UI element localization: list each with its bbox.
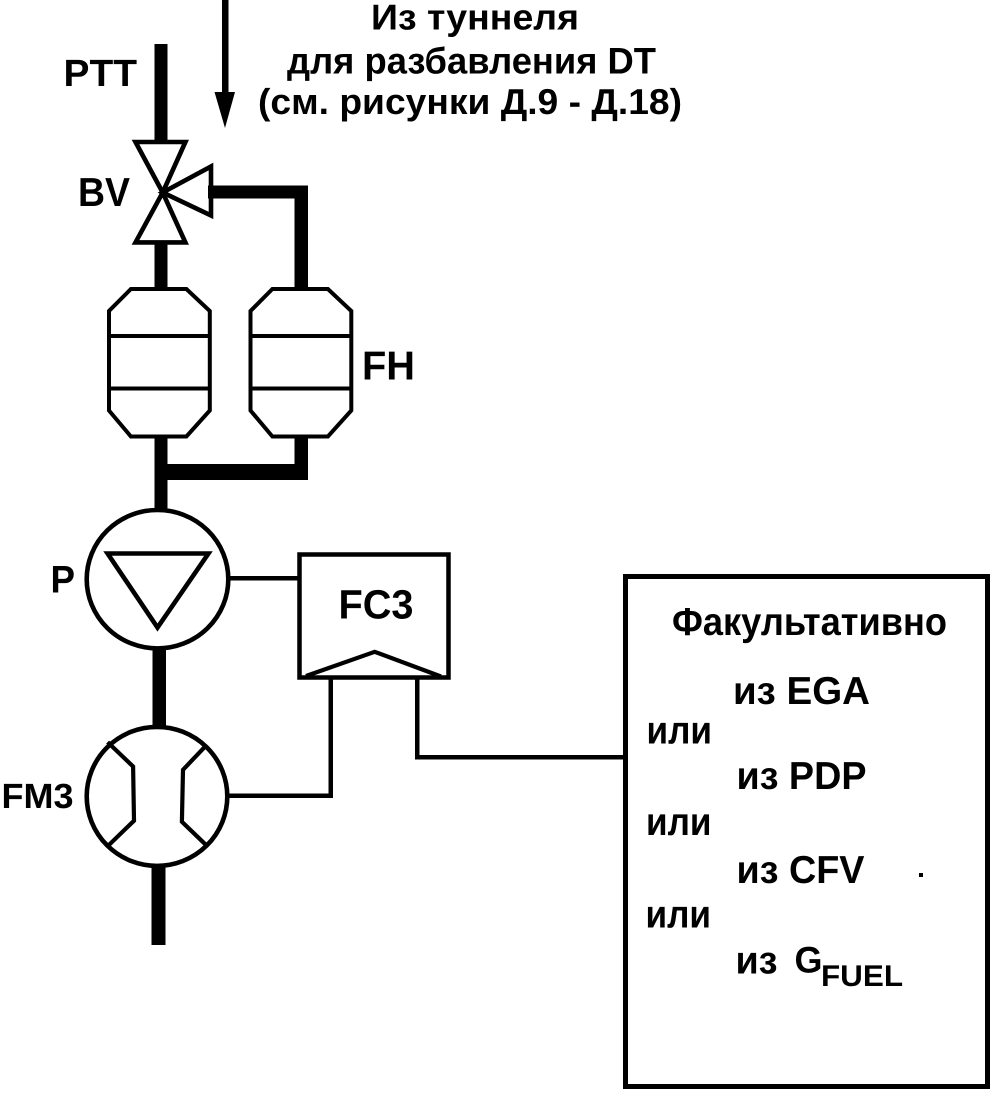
pipe PTT (into valve from top)	[155, 44, 168, 143]
svg-text:из CFV: из CFV	[737, 849, 865, 892]
valve BV (three-way)	[136, 142, 212, 242]
label из GFUEL	[736, 940, 904, 994]
svg-text:PTT: PTT	[64, 53, 138, 95]
inlet arrow from dilution tunnel DT	[215, 0, 236, 128]
svg-text:BV: BV	[78, 169, 130, 215]
svg-text:FUEL: FUEL	[821, 960, 903, 993]
line FC3 bottom-left (vertical)	[329, 679, 334, 798]
pump impeller triangle	[108, 554, 209, 628]
pump P	[87, 510, 229, 648]
FM3 venturi right	[182, 745, 207, 846]
svg-text:из PDP: из PDP	[737, 755, 867, 798]
pipe down to right filter	[295, 186, 309, 290]
filter housing right FH	[251, 289, 352, 437]
line horizontal to optional box	[415, 755, 625, 760]
pipe from valve right side	[208, 186, 308, 199]
pipe horizontal joining filters	[155, 464, 309, 480]
svg-text:G: G	[795, 940, 823, 981]
line FC3 bottom-right vertical to optional box	[415, 679, 420, 759]
line FM3 to FC3 (horizontal)	[229, 794, 333, 799]
speck in box	[919, 873, 923, 877]
FC3 controller box	[300, 555, 449, 678]
svg-text:для разбавления DT: для разбавления DT	[287, 41, 656, 82]
filter housing left	[109, 289, 210, 437]
pipe below valve	[155, 242, 168, 290]
pipe pump to FM3	[153, 649, 167, 726]
pipe below left filter to pump	[155, 436, 168, 510]
svg-text:из: из	[736, 940, 778, 983]
pipe below FM3 (outlet)	[152, 867, 166, 945]
svg-text:или: или	[647, 710, 713, 753]
svg-text:FC3: FC3	[339, 582, 414, 628]
svg-text:P: P	[51, 559, 76, 602]
flow meter FM3	[87, 727, 228, 866]
label: Из туннеля для разбавления DT (см. рисунки Д.9 - Д.18)	[258, 0, 682, 122]
optional sources box	[626, 577, 988, 1087]
svg-text:(см. рисунки Д.9 - Д.18): (см. рисунки Д.9 - Д.18)	[258, 81, 682, 122]
svg-text:FH: FH	[362, 343, 415, 389]
FM3 venturi left	[108, 742, 134, 846]
svg-text:или: или	[646, 894, 712, 937]
line pump to FC3	[228, 576, 301, 581]
svg-text:Факультативно: Факультативно	[672, 601, 947, 644]
svg-text:из EGA: из EGA	[733, 670, 870, 713]
svg-text:или: или	[646, 801, 712, 844]
svg-text:FM3: FM3	[2, 777, 74, 816]
svg-text:Из туннеля: Из туннеля	[371, 0, 579, 38]
FC3 chevron	[306, 652, 441, 677]
pipe below right filter	[295, 436, 309, 480]
